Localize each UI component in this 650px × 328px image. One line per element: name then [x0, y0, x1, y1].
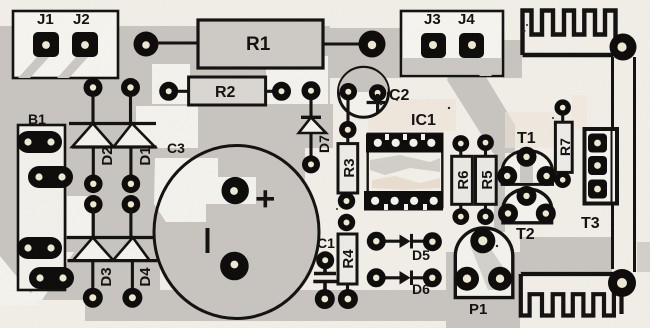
- pad C1 bottom: [315, 289, 335, 309]
- pad D4 bottom: [122, 288, 142, 308]
- pad pair B1 row3: [17, 237, 62, 259]
- copper pour top-left: [0, 26, 132, 82]
- pad R6 top: [452, 135, 469, 152]
- pad T2 right: [536, 204, 556, 224]
- pad D7 bottom: [302, 155, 320, 173]
- wire R7 bottom: [561, 172, 564, 176]
- wire R4 bottom: [346, 284, 349, 292]
- minus mark C3: [206, 228, 210, 253]
- wire D5 right: [412, 240, 424, 243]
- resistor R7: [555, 122, 572, 172]
- plus mark C2: [367, 94, 387, 113]
- diode D5 bar: [410, 234, 413, 249]
- IC1 camo blob2: [372, 176, 440, 190]
- pad bottom-right: [608, 269, 636, 297]
- white patch around R2 left pad: [152, 64, 190, 104]
- tan tint around T1: [505, 112, 563, 148]
- IC1 top pins: [374, 134, 436, 147]
- pad T3 pin2: [588, 156, 607, 175]
- pad T1 base: [517, 147, 537, 167]
- pad J3: [421, 33, 446, 58]
- pad D5 right: [423, 232, 442, 251]
- scan specks: [336, 24, 554, 247]
- resistor R6: [452, 156, 473, 204]
- pad J1: [33, 32, 59, 57]
- pad R5 top: [477, 134, 494, 151]
- diode D5: [400, 235, 411, 249]
- gray upper half C2: [339, 68, 388, 92]
- pad R5 bottom: [477, 208, 494, 225]
- capacitor C2 body: [339, 67, 389, 117]
- wire D3 upper: [92, 210, 95, 239]
- white patch left of C3: [136, 106, 198, 148]
- pad R2 right: [272, 82, 291, 101]
- pad top-right: [610, 34, 637, 61]
- IC1 camo blob1: [370, 155, 440, 175]
- pad T1 left: [497, 166, 517, 186]
- wire D1 mid: [129, 147, 132, 178]
- wire pad to R1: [157, 42, 199, 45]
- stub below pad: [619, 296, 623, 314]
- resistor R3: [338, 144, 358, 193]
- wire C2 to R3: [346, 100, 349, 124]
- connector block J3 J4: [401, 11, 503, 76]
- wire D7 top: [309, 99, 312, 118]
- scan grain overlay: [0, 0, 1, 1]
- diode D7 triangle: [299, 117, 326, 133]
- copper pour left block: [0, 82, 160, 300]
- pad C1 top: [316, 251, 334, 269]
- wire D4 upper: [129, 210, 132, 239]
- heatsink bottom comb: [521, 274, 614, 316]
- transistor T2 body: [503, 189, 552, 223]
- pad P1 left: [455, 267, 479, 291]
- copper pour top-center band: [132, 26, 330, 104]
- wire R7 top: [561, 114, 564, 124]
- pad T2 left: [498, 204, 518, 224]
- pad C2 right: [369, 84, 386, 101]
- wire R3 top: [346, 137, 349, 145]
- white patch right of R2: [266, 56, 328, 104]
- pad C3 minus: [220, 252, 249, 281]
- copper pour around P1: [446, 252, 520, 328]
- pad T2 base: [517, 186, 537, 206]
- pad R7 bottom: [555, 172, 571, 188]
- gray swath in P1: [470, 240, 505, 290]
- wire D3 lower: [91, 261, 94, 290]
- diode D7 cathode bar: [301, 116, 321, 119]
- diode D6: [400, 271, 411, 285]
- wire D1 top: [129, 95, 132, 125]
- copper pour bottom band: [85, 290, 460, 321]
- copper pour mid band under R2: [160, 104, 333, 148]
- shadow stripe under J2 pad: [57, 56, 89, 78]
- white column above lower bridge: [67, 196, 91, 236]
- wire R2 right: [265, 90, 273, 93]
- pad C3 plus: [222, 177, 249, 204]
- pad R6 bottom: [452, 208, 469, 225]
- pad D6 left: [367, 268, 386, 287]
- bridge top rail: [69, 122, 156, 125]
- resistor R2: [189, 77, 266, 105]
- wire R5 top: [484, 150, 487, 158]
- pad input left of R1: [134, 32, 159, 57]
- wire right edge outer: [633, 57, 636, 272]
- copper trace diagonal J4 to T1: [447, 62, 515, 153]
- pad T3 pin3: [588, 180, 607, 199]
- pad D1 top: [121, 78, 140, 97]
- pad D6 right: [423, 268, 442, 287]
- tan tint above IC1: [368, 99, 456, 131]
- connector block J1 J2: [13, 11, 118, 78]
- pad R3 bottom: [338, 192, 355, 209]
- copper pour above bottom heatsink: [520, 237, 612, 273]
- copper patch bottom right edge: [637, 242, 650, 272]
- resistor R1: [198, 20, 323, 68]
- gray stripe in T1: [520, 158, 533, 183]
- pad C2 left: [340, 83, 357, 100]
- capacitor C1 plates: [313, 268, 338, 290]
- pad D3 bottom: [83, 288, 103, 308]
- pad J2: [72, 32, 98, 57]
- pad P1 top: [470, 228, 495, 253]
- IC1 body: [368, 134, 443, 208]
- white region inside C3: [154, 158, 256, 222]
- diode D2: [72, 124, 114, 148]
- wire R1 to pad: [323, 43, 361, 46]
- pad pair left mid: [84, 175, 103, 214]
- diode D3: [73, 238, 114, 261]
- pad R4 bottom: [338, 289, 358, 309]
- wire R2 left: [177, 90, 190, 93]
- IC1 bottom pins: [371, 197, 438, 210]
- wire D2 mid: [92, 147, 95, 178]
- wire R5 bottom: [484, 204, 487, 210]
- pad pair right mid: [122, 175, 141, 214]
- pad R2 left: [159, 82, 178, 101]
- wire right edge inner: [611, 57, 614, 269]
- diode D6 bar: [410, 271, 413, 286]
- pad right of R1: [359, 31, 386, 58]
- IC1 top pin strip: [366, 134, 443, 153]
- T3 inner edge line: [611, 128, 613, 204]
- pad node below R3: [338, 214, 355, 231]
- gray band in J3 box: [403, 58, 501, 74]
- bridge mid rail: [72, 145, 157, 148]
- wire D5 left: [385, 240, 400, 243]
- resistor R5: [476, 156, 497, 204]
- white wedge bottom-left: [0, 256, 40, 305]
- transistor T1 body: [502, 150, 552, 184]
- pad D5 left: [367, 232, 386, 251]
- pad pair B1 row2: [28, 166, 73, 188]
- connector T3 box: [585, 129, 618, 204]
- pad T3 pin1: [588, 134, 607, 153]
- potentiometer P1 body: [455, 228, 513, 298]
- pad J4: [459, 33, 484, 58]
- wire D2 top: [91, 95, 94, 125]
- battery holder B1 box: [18, 125, 65, 290]
- diode D4: [113, 238, 150, 261]
- copper stripe left of T1: [494, 150, 505, 232]
- heatsink bottom spine: [521, 272, 614, 276]
- shadow stripe under J1 pad: [18, 56, 50, 78]
- wire D4 lower: [131, 261, 134, 290]
- heatsink top-right: [523, 11, 616, 56]
- wire D6 right: [412, 276, 424, 279]
- shadow stripe under J4 pad: [462, 56, 492, 76]
- wire R3 bottom: [346, 193, 349, 198]
- pad D7 top: [302, 81, 321, 100]
- wire R6 top: [459, 150, 462, 158]
- pad pair B1 row4: [29, 267, 74, 289]
- bridge lower bottom rail: [67, 259, 157, 262]
- pad D2 top: [84, 78, 103, 97]
- copper pour right of J4: [503, 40, 522, 78]
- pad pair B1 row1: [17, 131, 62, 153]
- wire D6 left: [385, 276, 400, 279]
- diode D1: [114, 124, 156, 148]
- bridge lower top rail: [67, 236, 156, 239]
- capacitor C3 outline: [154, 146, 319, 319]
- pad P1 right: [488, 267, 512, 291]
- wire D7 bottom: [309, 133, 312, 157]
- wire R6 bottom: [459, 204, 462, 210]
- pad R7 top: [555, 99, 571, 115]
- resistor R4: [338, 234, 357, 284]
- capacitor C3 body fill: [154, 146, 319, 319]
- copper pour around feed pad: [330, 28, 401, 78]
- heatsink top spine: [523, 53, 614, 57]
- plus mark C3: [257, 190, 275, 207]
- pad T1 right: [537, 166, 557, 186]
- IC1 bottom pin strip: [364, 191, 443, 211]
- white stripe bottom-left: [26, 252, 74, 300]
- tan tint right of R7: [572, 95, 587, 129]
- pad R3 top: [339, 121, 356, 138]
